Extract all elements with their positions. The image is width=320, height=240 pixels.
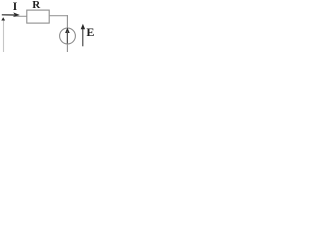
svg-text:E: E [86, 25, 94, 39]
arrow shaft inside source [66, 31, 68, 44]
svg-text:I: I [13, 0, 18, 13]
wire top-right segment [49, 15, 68, 17]
resistor R (box) [27, 10, 49, 23]
EMF direction arrow E (annotation, points up) [82, 29, 84, 47]
source E (circle) [60, 28, 76, 44]
current arrow I on top wire [2, 14, 15, 16]
current arrowhead on left branch (points up) [1, 17, 5, 20]
wire left vertical branch [3, 20, 5, 53]
wire top-left segment [13, 15, 27, 17]
wire right vertical branch [66, 15, 68, 52]
svg-text:R: R [32, 0, 41, 11]
EMF arrowhead inside source (points up) [65, 28, 70, 33]
